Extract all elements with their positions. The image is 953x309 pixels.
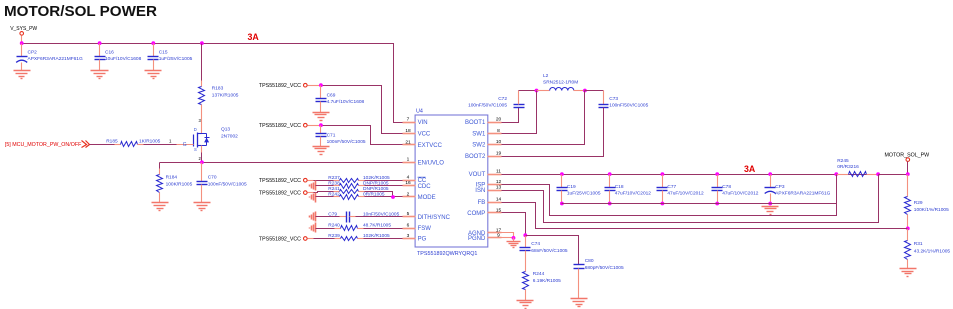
svg-text:COMP: COMP xyxy=(467,211,485,217)
svg-text:C15: C15 xyxy=(159,49,168,55)
svg-text:TPS551892_VCC: TPS551892_VCC xyxy=(259,123,301,129)
svg-text:6: 6 xyxy=(407,222,410,228)
svg-text:2: 2 xyxy=(407,191,410,197)
svg-text:V_SYS_PW: V_SYS_PW xyxy=(10,26,37,32)
svg-text:L2: L2 xyxy=(543,73,549,79)
svg-text:U4: U4 xyxy=(416,109,423,115)
svg-text:FSW: FSW xyxy=(418,226,432,232)
svg-text:C73: C73 xyxy=(609,96,618,102)
svg-text:68nF/50V/C1005: 68nF/50V/C1005 xyxy=(531,248,568,254)
svg-text:0R/R3216: 0R/R3216 xyxy=(837,164,859,170)
svg-text:20: 20 xyxy=(496,116,502,122)
svg-text:S: S xyxy=(194,147,197,152)
svg-text:CP2: CP2 xyxy=(28,49,38,55)
svg-text:10nF/50V/C1005: 10nF/50V/C1005 xyxy=(363,211,400,217)
svg-text:R240: R240 xyxy=(328,222,340,228)
svg-text:TPS551892QWRYQRQ1: TPS551892QWRYQRQ1 xyxy=(417,251,477,257)
svg-text:MOTOR/SOL POWER: MOTOR/SOL POWER xyxy=(4,3,157,20)
svg-text:12: 12 xyxy=(496,179,502,185)
svg-text:1uF/25V/C1005: 1uF/25V/C1005 xyxy=(567,190,601,196)
svg-text:R31: R31 xyxy=(914,241,923,247)
svg-text:R238: R238 xyxy=(328,181,340,187)
svg-text:C74: C74 xyxy=(531,241,540,247)
svg-text:R241: R241 xyxy=(328,186,340,192)
svg-text:R239: R239 xyxy=(328,233,340,239)
svg-text:EXTVCC: EXTVCC xyxy=(418,143,443,149)
svg-text:Q13: Q13 xyxy=(221,127,230,133)
svg-text:CP3: CP3 xyxy=(775,184,785,190)
svg-text:9: 9 xyxy=(497,232,500,238)
svg-text:47uF/10V/C2012: 47uF/10V/C2012 xyxy=(722,190,759,196)
svg-text:VIN: VIN xyxy=(418,120,428,126)
svg-text:100nF/50V/C1005: 100nF/50V/C1005 xyxy=(609,103,648,109)
svg-text:SW1: SW1 xyxy=(472,132,486,138)
svg-text:100nF/50V/C1005: 100nF/50V/C1005 xyxy=(327,139,366,145)
svg-text:TPS551892_VCC: TPS551892_VCC xyxy=(259,83,301,89)
svg-text:PGND: PGND xyxy=(468,236,486,242)
svg-text:47uF/10V/C2012: 47uF/10V/C2012 xyxy=(615,190,652,196)
svg-text:16: 16 xyxy=(405,180,411,186)
svg-text:VCC: VCC xyxy=(418,132,431,138)
svg-text:3A: 3A xyxy=(248,32,260,42)
svg-text:47uF/10V/C2012: 47uF/10V/C2012 xyxy=(667,190,704,196)
svg-text:R183: R183 xyxy=(212,85,224,91)
svg-text:C77: C77 xyxy=(667,184,676,190)
svg-text:BOOT2: BOOT2 xyxy=(465,154,486,160)
svg-text:C70: C70 xyxy=(208,174,217,180)
svg-text:3A: 3A xyxy=(744,164,756,174)
svg-text:1uF/25V/C1005: 1uF/25V/C1005 xyxy=(159,56,193,62)
svg-text:48.7K/R1005: 48.7K/R1005 xyxy=(363,222,391,228)
svg-text:D: D xyxy=(194,127,197,132)
svg-text:C18: C18 xyxy=(615,184,624,190)
svg-text:C71: C71 xyxy=(327,132,336,138)
svg-text:4.7uF/10V/C1608: 4.7uF/10V/C1608 xyxy=(327,99,365,105)
svg-text:43.2K/1%/R1005: 43.2K/1%/R1005 xyxy=(914,248,951,254)
svg-text:8: 8 xyxy=(497,128,500,134)
svg-text:10uF/10V/C1608: 10uF/10V/C1608 xyxy=(105,56,142,62)
svg-text:R242: R242 xyxy=(328,192,340,198)
svg-text:2N7002: 2N7002 xyxy=(221,134,238,140)
svg-text:7: 7 xyxy=(407,116,410,122)
svg-text:R185: R185 xyxy=(106,138,118,144)
svg-text:APXF6R3ARA221MF61G: APXF6R3ARA221MF61G xyxy=(775,190,830,196)
svg-text:TPS551892_VCC: TPS551892_VCC xyxy=(259,178,301,184)
svg-text:14: 14 xyxy=(496,196,502,202)
svg-text:SW2: SW2 xyxy=(472,143,486,149)
svg-text:G: G xyxy=(183,142,187,148)
svg-text:18: 18 xyxy=(405,128,411,134)
svg-text:VOUT: VOUT xyxy=(469,172,486,178)
svg-text:SRN2512-1R0M: SRN2512-1R0M xyxy=(543,79,578,85)
svg-text:R237: R237 xyxy=(328,175,340,181)
svg-text:13: 13 xyxy=(496,184,502,190)
svg-text:19: 19 xyxy=(496,150,502,156)
svg-text:21: 21 xyxy=(405,139,411,145)
svg-text:DITH/SYNC: DITH/SYNC xyxy=(418,215,451,221)
svg-text:TPS551892_VCC: TPS551892_VCC xyxy=(259,191,301,197)
svg-text:FB: FB xyxy=(478,200,486,206)
svg-text:APXF6R3ARA221MF61G: APXF6R3ARA221MF61G xyxy=(28,56,83,62)
svg-text:100K/1%/R1005: 100K/1%/R1005 xyxy=(914,207,949,213)
svg-text:3: 3 xyxy=(407,233,410,239)
svg-text:C78: C78 xyxy=(722,184,731,190)
svg-text:C69: C69 xyxy=(327,93,336,99)
svg-text:C19: C19 xyxy=(567,184,576,190)
svg-text:EN/UVLO: EN/UVLO xyxy=(418,160,445,166)
svg-text:R244: R244 xyxy=(533,271,545,277)
svg-text:CDC: CDC xyxy=(418,184,432,190)
svg-text:137K/R1005: 137K/R1005 xyxy=(212,93,239,99)
svg-text:TPS551892_VCC: TPS551892_VCC xyxy=(259,237,301,243)
svg-text:C72: C72 xyxy=(498,96,507,102)
svg-text:6.19K/R1005: 6.19K/R1005 xyxy=(533,278,561,284)
svg-text:100nF/50V/C1005: 100nF/50V/C1005 xyxy=(208,182,247,188)
svg-text:5: 5 xyxy=(407,211,410,217)
svg-text:100nF/50V/C1005: 100nF/50V/C1005 xyxy=(468,103,507,109)
svg-text:MODE: MODE xyxy=(418,195,436,201)
svg-text:1: 1 xyxy=(407,157,410,163)
svg-text:R29: R29 xyxy=(914,200,923,206)
svg-text:1K/R1005: 1K/R1005 xyxy=(139,138,161,144)
svg-text:10: 10 xyxy=(496,139,502,145)
svg-text:11: 11 xyxy=(496,169,501,175)
svg-text:C16: C16 xyxy=(105,49,114,55)
svg-text:[5] MCU_MOTOR_PW_ON/OFF: [5] MCU_MOTOR_PW_ON/OFF xyxy=(5,142,82,148)
svg-text:680pF/50V/C1005: 680pF/50V/C1005 xyxy=(585,265,624,271)
svg-text:PG: PG xyxy=(418,237,427,243)
svg-text:C80: C80 xyxy=(585,258,594,264)
svg-text:BOOT1: BOOT1 xyxy=(465,120,486,126)
svg-text:100K/R1005: 100K/R1005 xyxy=(166,182,193,188)
svg-text:C79: C79 xyxy=(328,211,337,217)
svg-text:102K/R1005: 102K/R1005 xyxy=(363,233,390,239)
svg-text:15: 15 xyxy=(496,207,502,213)
svg-text:ISN: ISN xyxy=(475,188,485,194)
svg-text:R184: R184 xyxy=(166,174,178,180)
svg-text:4: 4 xyxy=(407,175,410,181)
svg-text:R245: R245 xyxy=(837,158,849,164)
